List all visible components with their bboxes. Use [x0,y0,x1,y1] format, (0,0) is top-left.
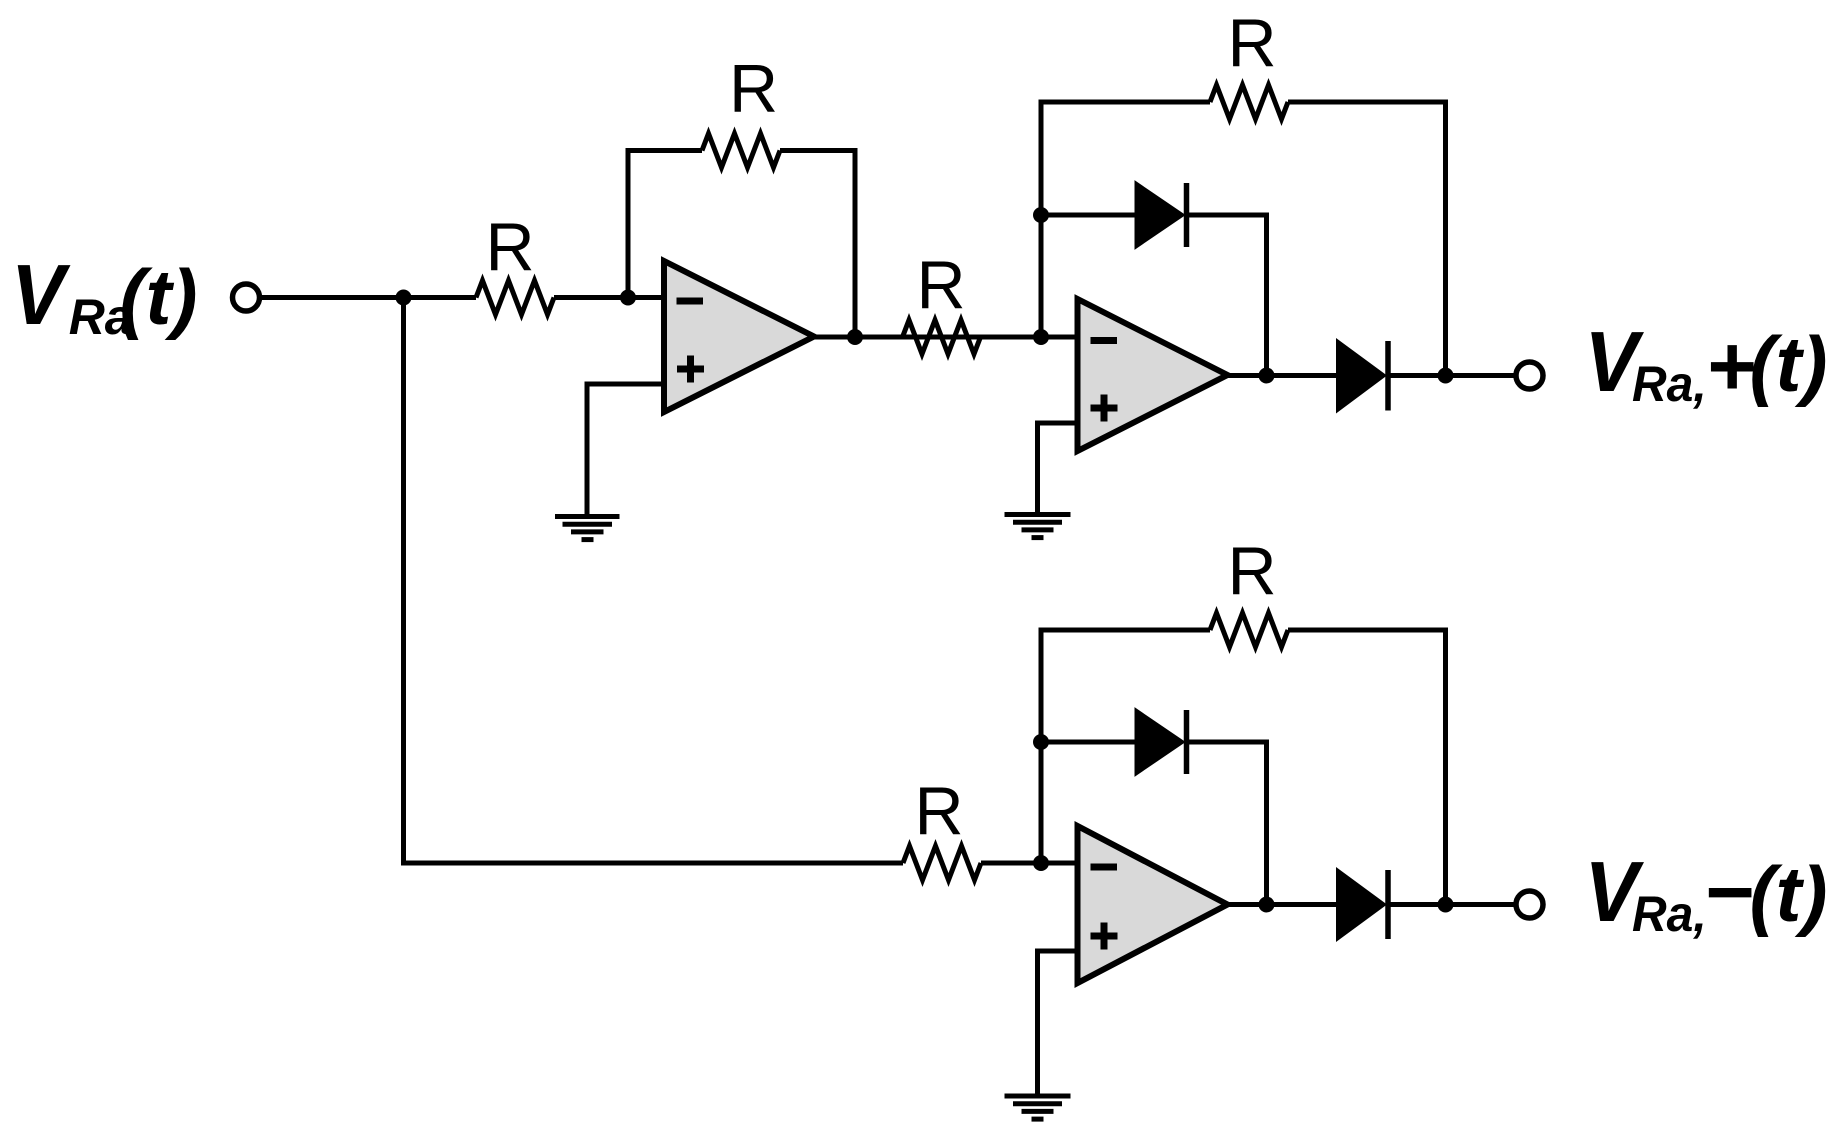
wire opamp3 noninverting to ground [1038,951,1078,1096]
wire opamp2 output [1228,373,1338,378]
wire opamp2 noninverting to ground [1038,423,1078,514]
svg-text:Ra,: Ra, [1632,887,1707,942]
ground for opamp1 [555,517,620,540]
resistor R between stages [903,320,981,354]
node opamp3 inverting junction [1033,855,1049,871]
wire feedback loop opamp1 [628,151,702,298]
wire feedback resistor to opamp1 output [780,151,855,338]
terminal output minus open circle [1516,891,1543,918]
resistor R feedback opamp1 [702,134,780,168]
wire opamp3 inverting up to feedback resistor [1041,630,1210,863]
node Vin input label [11,247,197,345]
svg-text:(t): (t) [1750,850,1828,938]
op-amp U1 [664,261,814,412]
terminal output plus open circle [1516,362,1543,389]
wire opamp1 noninverting to ground [587,384,664,516]
node input junction [396,290,412,306]
op-amp U3 plus sign [1091,923,1118,950]
node output junction with feedback R stage3 [1438,897,1454,913]
wire resistor to opamp3 inverting [981,861,1078,866]
op-amp U2 plus sign [1091,395,1118,422]
ground for opamp2 [1005,515,1071,538]
resistor R feedback opamp3 [1210,613,1288,647]
node diode branch junction opamp2 [1033,207,1049,223]
wire diode D1 to opamp2 output [1189,215,1267,376]
node output junction with feedback R [1438,368,1454,384]
svg-text:V: V [11,247,71,342]
wire opamp3 inverting to feedback diode [1041,740,1136,745]
svg-text:R: R [485,210,534,286]
wire diode D4 to output terminal [1391,902,1514,907]
resistor R input stage3 [903,846,981,880]
node Vout minus label [1585,844,1828,942]
op-amp U2 [1078,299,1228,451]
resistor R feedback opamp2 [1210,85,1288,119]
svg-text:R: R [729,51,778,127]
node opamp1 output junction [847,329,863,345]
wire opamp2 inverting to feedback diode [1041,213,1136,218]
diode D4 output opamp3 [1338,870,1385,939]
svg-text:−: − [1704,845,1754,940]
node opamp1 inverting junction [620,290,636,306]
svg-text:(t): (t) [1750,320,1828,408]
wire opamp3 output [1228,902,1338,907]
node opamp3 output junction [1259,897,1275,913]
svg-text:(t): (t) [120,253,198,341]
wire feedback resistor to output node opamp2 [1288,102,1446,376]
node Vout plus label [1585,314,1828,414]
wire diode D3 to opamp3 output [1189,742,1267,905]
diode D2 output opamp2 [1338,341,1385,411]
svg-text:R: R [916,248,965,324]
op-amp U2 minus sign [1091,337,1118,344]
resistor R input stage1 [476,281,554,315]
svg-text:+: + [1706,319,1756,414]
node opamp2 output junction [1259,368,1275,384]
op-amp U1 minus sign [677,298,704,305]
svg-text:R: R [1227,6,1276,82]
wire opamp1 output to opamp2 inverting [814,335,1078,340]
node diode branch junction opamp3 [1033,734,1049,750]
svg-text:R: R [1227,534,1276,610]
op-amp U3 [1078,826,1228,983]
svg-text:R: R [914,774,963,850]
wire resistor to opamp1 inverting input [554,295,664,300]
ground for opamp3 [1005,1096,1071,1119]
wire opamp2 inverting up to feedback resistor [1041,102,1210,337]
terminal input open circle [233,284,260,311]
node opamp2 inverting junction [1033,329,1049,345]
wire input junction down to lower branch [404,298,904,864]
wire input horizontal [262,295,476,300]
svg-text:Ra,: Ra, [1632,357,1707,412]
wire feedback resistor to output node opamp3 [1288,630,1446,905]
wire diode D2 to output terminal [1391,373,1514,378]
op-amp U3 minus sign [1091,864,1118,871]
diode D3 feedback opamp3 [1136,710,1183,774]
diode D1 feedback opamp2 [1136,183,1183,247]
op-amp U1 plus sign [677,356,704,383]
